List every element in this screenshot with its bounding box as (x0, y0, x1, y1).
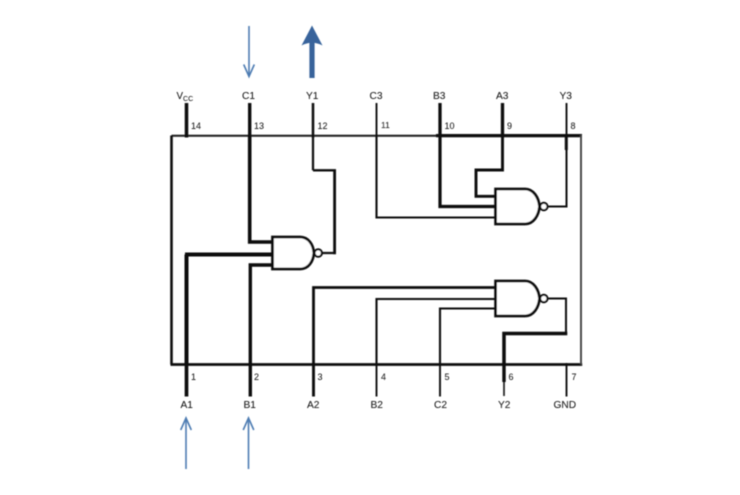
wire C3 pin11 to U1C bottom input (377, 136, 497, 218)
svg-text:5: 5 (445, 372, 450, 382)
svg-text:B3: B3 (433, 91, 446, 102)
wire C2 pin5 to U1B bottom input (440, 309, 496, 365)
svg-text:6: 6 (509, 372, 514, 382)
wire A1 pin1 to U1A middle input (185, 255, 273, 365)
pin 4 B2 stub (376, 363, 378, 397)
IC body outline: left edge (170, 136, 173, 365)
svg-text:Y1: Y1 (306, 91, 319, 102)
bubble U1A output (315, 249, 322, 256)
pin 3 A2 stub (312, 363, 315, 397)
pin 5 C2 stub (439, 363, 441, 397)
pin 12 Y1 stub (312, 103, 315, 138)
svg-text:14: 14 (191, 121, 201, 131)
svg-text:13: 13 (254, 121, 264, 131)
IC body outline: bottom edge (171, 363, 583, 366)
svg-text:GND: GND (554, 400, 577, 411)
svg-text:10: 10 (445, 121, 455, 131)
svg-text:9: 9 (507, 121, 512, 131)
NAND gate U1A (273, 237, 314, 269)
pin 2 B1 stub (249, 363, 252, 397)
IC body outline: top edge (172, 135, 583, 137)
IC body outline: right edge (580, 135, 582, 365)
bubble U1C output (540, 203, 547, 210)
svg-text:B1: B1 (244, 400, 257, 411)
pin 14 VCC stub (185, 103, 189, 138)
svg-text:A3: A3 (496, 91, 509, 102)
input arrow up at A1 (181, 418, 192, 469)
bubble U1B output (540, 295, 547, 302)
svg-text:8: 8 (571, 121, 576, 131)
svg-text:VCC: VCC (177, 91, 194, 103)
pin 13 C1 stub (248, 103, 251, 138)
wire A2 pin3 to U1B top input (314, 288, 497, 365)
svg-text:4: 4 (381, 372, 386, 382)
svg-text:7: 7 (572, 372, 577, 382)
wire U1B output to Y2 pin6 (548, 299, 566, 333)
svg-text:1: 1 (191, 372, 196, 382)
svg-text:12: 12 (318, 121, 328, 131)
IC body outline: top edge thick right segment (436, 134, 582, 137)
svg-text:C2: C2 (434, 400, 447, 411)
pin 9 A3 stub (501, 103, 504, 138)
wire U1C output to Y3 pin8 (548, 149, 566, 207)
svg-text:C3: C3 (370, 91, 383, 102)
output arrow up at Y1 (thick) (302, 26, 323, 79)
pin 11 C3 stub (376, 103, 378, 138)
wire U1A output to Y1 pin12 (323, 252, 335, 254)
wire B2 pin4 to U1B middle input (377, 299, 497, 365)
svg-text:2: 2 (254, 372, 259, 382)
pin 7 GND stub (566, 363, 568, 397)
pin 1 A1 stub (185, 363, 189, 397)
svg-text:A2: A2 (307, 400, 320, 411)
wire B1 pin2 to U1A bottom input (250, 265, 272, 365)
input arrow down at C1 (244, 26, 255, 77)
pin 8 Y3 stub (566, 103, 568, 138)
svg-text:B2: B2 (371, 400, 384, 411)
pin 10 B3 stub (438, 103, 441, 138)
svg-text:11: 11 (381, 120, 390, 130)
pin 6 Y2 stub (502, 363, 505, 382)
wire C1 pin13 to U1A top input (250, 136, 273, 243)
input arrow up at B1 (243, 418, 254, 469)
svg-text:3: 3 (318, 372, 323, 382)
NAND gate U1B (496, 281, 540, 316)
svg-text:C1: C1 (242, 91, 255, 102)
svg-text:Y2: Y2 (498, 400, 511, 411)
NAND gate U1C (496, 189, 540, 224)
svg-text:Y3: Y3 (560, 91, 573, 102)
wire B3 pin10 to U1C middle input (440, 136, 496, 207)
svg-text:A1: A1 (181, 400, 194, 411)
wire A3 pin9 to U1C top input (476, 136, 503, 197)
